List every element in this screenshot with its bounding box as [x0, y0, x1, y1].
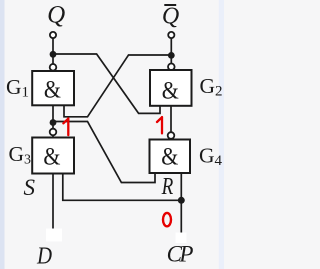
op bubble G4 output: [168, 132, 175, 139]
wire node S1 to G4 left input: [53, 122, 155, 183]
white patch at D terminal: [46, 229, 62, 242]
junction node Qbar: [168, 52, 175, 59]
svg-text:&: &: [161, 143, 178, 171]
svg-text:D: D: [36, 242, 52, 269]
terminal Q: [50, 32, 56, 38]
svg-text:R: R: [161, 171, 174, 199]
svg-text:&: &: [43, 143, 60, 171]
junction node S1 (G3 output): [50, 119, 57, 126]
wire Qbar junction to G1 right input (cross-coupling): [64, 55, 171, 117]
wire G3 bubble to G3 box: [52, 135, 54, 139]
svg-text:S: S: [24, 175, 36, 200]
wire Qbar junction to G2 output bubble: [170, 53, 172, 64]
wire CP terminal to G4 right input: [180, 172, 182, 233]
logic value 1 at R1 node: [157, 117, 162, 133]
junction node Q: [50, 51, 57, 58]
wire G2 right input down to G4 output bubble: [170, 105, 172, 132]
svg-text:&: &: [162, 77, 179, 105]
gate G4 box: [150, 140, 191, 174]
logic value 0 at CP node: [163, 213, 171, 226]
wire Q terminal to Q junction: [52, 38, 54, 52]
logic value 1 at S1 node: [63, 118, 68, 135]
gate G2 box: [150, 70, 192, 106]
op bubble G2 output: [168, 64, 175, 71]
junction node CP: [178, 197, 185, 204]
wire CP to G3 right input: [63, 173, 182, 201]
gate G3 box: [32, 138, 74, 174]
gate G1 box: [32, 71, 74, 105]
wire Q junction to G2 left input (cross-coupling): [53, 54, 160, 113]
svg-text:Q: Q: [47, 1, 65, 28]
svg-text:&: &: [44, 76, 61, 104]
op bubble G3 output: [50, 129, 57, 136]
wire D input to G3 left input: [52, 173, 54, 229]
op bubble G1 output: [50, 64, 57, 71]
wire Q junction to G1 output bubble: [52, 52, 54, 64]
wire G1 left input down to G3 output bubble: [52, 105, 54, 130]
wire Qbar terminal to Qbar junction: [170, 38, 172, 53]
overbar of Qbar: [164, 4, 176, 6]
white patch at CP terminal: [176, 233, 187, 244]
svg-text:Q: Q: [162, 3, 179, 29]
svg-text:CP: CP: [167, 241, 194, 266]
terminal Qbar: [168, 32, 174, 38]
